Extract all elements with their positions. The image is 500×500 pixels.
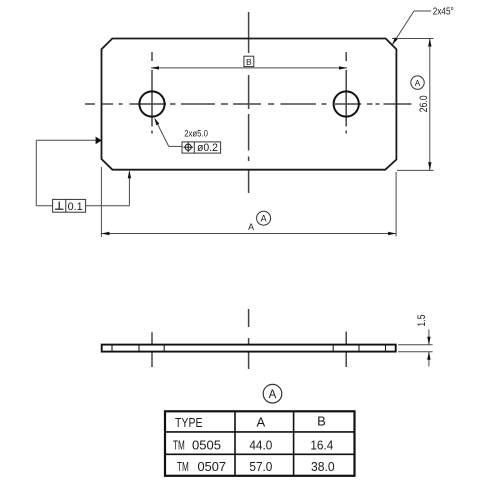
svg-text:A: A xyxy=(248,222,254,232)
dimension line 1.5 xyxy=(428,329,430,344)
svg-text:TM0505: TM0505 xyxy=(173,438,221,453)
side view centerline left hole xyxy=(151,332,153,367)
svg-text:57.0: 57.0 xyxy=(249,459,272,474)
extension line A left xyxy=(100,167,102,237)
svg-text:A: A xyxy=(415,78,421,88)
dimension line 26.0 xyxy=(429,39,431,171)
svg-text:B: B xyxy=(317,414,326,429)
extension lines 1.5 xyxy=(398,344,433,346)
svg-text:TM0507: TM0507 xyxy=(177,459,226,474)
side view hole line right a xyxy=(332,345,334,352)
side view center dash xyxy=(248,309,250,327)
balloon A bottom xyxy=(257,211,271,225)
svg-text:B: B xyxy=(246,57,252,67)
centerline vertical right hole xyxy=(345,52,347,134)
hole callout leader xyxy=(156,121,169,146)
extension line bottom for 26.0 xyxy=(397,169,434,171)
dimension line A xyxy=(101,233,396,235)
side view plate profile xyxy=(102,345,396,352)
svg-text:26.0: 26.0 xyxy=(418,95,430,112)
hole right xyxy=(334,91,359,116)
perpendicularity leader left leg xyxy=(36,205,52,207)
table row divider 2 xyxy=(165,453,355,455)
hole left xyxy=(139,91,164,116)
position symbol xyxy=(185,144,191,150)
svg-text:A: A xyxy=(261,214,267,224)
svg-text:A: A xyxy=(256,415,265,430)
svg-text:1.5: 1.5 xyxy=(416,315,428,327)
svg-text:2x45°: 2x45° xyxy=(433,7,454,18)
svg-text:38.0: 38.0 xyxy=(311,459,335,474)
table row divider 1 xyxy=(165,431,355,433)
centerline vertical left hole xyxy=(151,52,153,134)
plate outline top view with chamfered corners xyxy=(102,39,397,170)
perpendicular symbol xyxy=(58,202,60,210)
dimension line B xyxy=(151,67,347,69)
perpendicularity frame xyxy=(53,199,86,212)
chamfer leader 2x45 xyxy=(414,10,431,12)
svg-text:44.0: 44.0 xyxy=(249,438,272,453)
side view centerline right hole xyxy=(345,332,347,368)
side view hole line right b xyxy=(358,345,360,352)
label B box xyxy=(244,56,254,66)
feature control frame position tolerance xyxy=(182,142,221,153)
extension line A right xyxy=(395,172,397,237)
table column divider 1 xyxy=(234,411,236,476)
balloon A above table xyxy=(263,384,282,403)
centerline horizontal through holes xyxy=(85,103,411,105)
svg-text:ø0.2: ø0.2 xyxy=(197,142,218,154)
side view chamfer line left xyxy=(111,345,113,352)
table outer border xyxy=(165,411,355,476)
balloon A right xyxy=(411,76,424,89)
svg-text:16.4: 16.4 xyxy=(310,438,333,453)
perpendicularity leader right leg xyxy=(86,205,130,207)
svg-text:A: A xyxy=(269,389,277,401)
table column divider 2 xyxy=(293,411,295,476)
svg-text:0.1: 0.1 xyxy=(68,201,83,213)
side view hole line left a xyxy=(138,345,140,352)
datum arrowhead on left edge xyxy=(96,137,102,145)
side view chamfer line right xyxy=(385,345,387,352)
svg-text:2xø5.0: 2xø5.0 xyxy=(184,129,208,140)
centerline vertical plate center xyxy=(248,12,250,193)
side view hole line left b xyxy=(163,345,165,352)
svg-text:TYPE: TYPE xyxy=(175,415,203,430)
extension line top for 26.0 xyxy=(392,38,434,40)
